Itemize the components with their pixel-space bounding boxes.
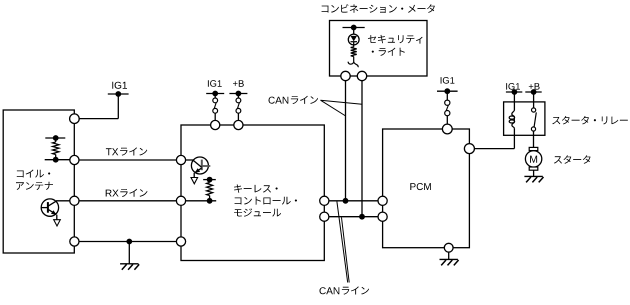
pin PCM CAN lower <box>378 212 387 221</box>
node IG1 (left) tap bar <box>108 93 129 95</box>
ground G3 (starter) <box>533 170 535 176</box>
label keyless line2 コントロール・ <box>235 197 297 205</box>
transistor Q2 emitter <box>195 168 202 173</box>
label CANライン (bottom) <box>320 287 340 294</box>
resistor R1 top tap bar <box>203 179 216 181</box>
wire transistor Q1 collector to RX pin <box>56 200 74 202</box>
label RXライン <box>106 190 119 197</box>
node +B (relay) dot <box>531 89 537 95</box>
label IG1 (relay) <box>506 83 520 90</box>
pin meter CAN2 <box>357 71 366 80</box>
antenna coil bottom dot <box>53 157 59 163</box>
transistor Q1 base lead <box>41 207 48 209</box>
label セキュリティ <box>368 35 423 44</box>
transistor Q2 collector <box>193 160 202 167</box>
wire +B to fuse <box>237 94 239 99</box>
relay coil K1 <box>512 110 515 117</box>
pin keyless RX <box>176 196 185 205</box>
label PCM <box>410 183 431 190</box>
node +B (keyless) tap bar <box>229 93 247 95</box>
transistor Q1 collector <box>48 201 57 207</box>
transistor Q2 emitter arrow <box>195 168 201 173</box>
starter motor M1 top brush <box>529 147 538 150</box>
node +B (keyless) dot <box>236 91 242 97</box>
transistor Q2 circle <box>191 157 208 174</box>
pointer line to CAN line 2 <box>321 100 363 104</box>
node IG1 (relay) tap bar <box>506 91 522 93</box>
label keyless line3 モジュール <box>234 208 281 216</box>
LED D1 security light <box>348 34 359 45</box>
resistor R1 bottom dot <box>207 198 213 204</box>
pin keyless TX <box>176 155 185 164</box>
box PCM <box>383 129 470 248</box>
wire PCM ground pin <box>444 243 453 252</box>
pointer line to CAN line 1 <box>321 100 346 116</box>
node IG1 (relay) dot <box>512 89 518 95</box>
resistor R1 top dot <box>207 177 213 183</box>
label IG1 (keyless) <box>208 80 222 87</box>
resistor L1 antenna coil <box>55 138 57 142</box>
transistor Q2 base lead <box>202 165 211 167</box>
wire ground line (bottom) <box>74 241 181 243</box>
transistor Q1 base bar <box>47 202 49 213</box>
wire switch to starter <box>533 131 535 147</box>
label ・ライト <box>372 48 405 56</box>
wire +B into relay <box>533 92 535 108</box>
label coil-antenna line1 コイル・ <box>17 170 50 178</box>
wire IG1 to fuse <box>446 91 448 100</box>
label coil-antenna line2 アンテナ <box>16 182 53 190</box>
starter motor M1 letter <box>530 156 537 163</box>
node meter power tap bar <box>343 27 365 29</box>
label keyless line1 キーレス・ <box>234 184 278 192</box>
label コンビネーション・メータ <box>322 4 435 13</box>
wire fuse to pin <box>237 113 239 125</box>
pin PCM CAN upper <box>378 196 387 205</box>
fuse F1 (IG1 keyless) <box>213 98 218 103</box>
node IG1 (keyless) tap bar <box>206 93 224 95</box>
pin coil-antenna 3 (RX) <box>70 196 79 205</box>
box coil-antenna <box>3 110 74 253</box>
pin PCM IG1 <box>442 124 452 134</box>
wire CAN line 2 (vertical) <box>361 76 363 217</box>
ground G2 (PCM) <box>448 252 450 259</box>
label CANライン (top) <box>269 97 289 104</box>
resistor R1 (keyless) <box>209 180 211 183</box>
transistor Q1 emitter <box>48 209 56 214</box>
wire TX line <box>74 159 181 161</box>
pointer line from upper bus <box>337 202 348 283</box>
label IG1 (left) <box>112 82 127 89</box>
wire tap to LED <box>353 28 355 35</box>
box combination-meter <box>330 21 428 77</box>
transistor Q1 emitter arrow <box>51 210 57 215</box>
starter motor M1 body <box>525 151 541 167</box>
wire CAN bus upper <box>324 200 382 202</box>
label TXライン <box>106 148 118 155</box>
fuse F3 (IG1 PCM) <box>445 100 450 105</box>
relay switch S1 top contact <box>532 108 536 112</box>
wire fuse to pin <box>214 113 216 125</box>
squiggle internal-connection <box>354 57 358 68</box>
label +B (relay) <box>529 83 540 90</box>
wire RX pin stub <box>181 200 216 202</box>
pointer line from lower bus <box>342 218 350 283</box>
wire CAN bus lower <box>324 216 382 218</box>
node IG1 (PCM) dot <box>444 88 450 94</box>
label +B (keyless) <box>233 80 244 87</box>
wire CAN line 1 (vertical) <box>345 76 347 201</box>
junction dot CAN1/bus <box>343 198 349 204</box>
pin PCM starter-control <box>464 144 474 154</box>
node IG1 (keyless) dot <box>212 91 218 97</box>
starter motor M1 bottom brush <box>529 167 538 170</box>
node +B (relay) tap bar <box>525 91 541 93</box>
pin coil-antenna 4 (GND) <box>70 237 79 246</box>
junction dot CAN2/bus <box>359 214 365 220</box>
pin keyless CAN upper <box>320 196 329 205</box>
pin coil-antenna 1 <box>70 114 80 124</box>
wire PCM to starter relay coil <box>469 148 514 150</box>
pin coil-antenna 2 (TX) <box>70 155 79 164</box>
transistor Q2 emitter tail <box>193 173 195 178</box>
antenna coil top tap bar <box>45 137 65 139</box>
ground G1 <box>128 242 130 264</box>
junction dot on ground line <box>126 239 132 245</box>
wire IG1 feed to coil-antenna box <box>117 94 119 119</box>
pin meter CAN1 <box>341 71 350 80</box>
wire IG1 to fuse <box>214 94 216 99</box>
pin keyless GND <box>176 237 185 246</box>
relay switch S1 blade <box>534 112 536 127</box>
relay switch S1 bottom contact <box>531 127 535 131</box>
node IG1 (left) junction dot <box>115 91 121 97</box>
node IG1 (PCM) tap bar <box>437 90 458 92</box>
label スタータ・リレー <box>552 116 628 125</box>
box starter-relay <box>504 102 545 135</box>
wire IG1 into relay <box>513 92 515 110</box>
node meter power dot <box>351 25 357 31</box>
open arrow below Q2 <box>191 178 198 184</box>
transistor Q1 emitter tail <box>56 215 58 220</box>
open arrow below Q1 <box>54 220 61 226</box>
fuse F2 (+B keyless) <box>236 98 241 103</box>
transistor Q2 base bar <box>201 160 203 171</box>
label スタータ <box>554 155 591 164</box>
wire fuse to PCM pin <box>446 116 448 129</box>
label IG1 (PCM) <box>441 77 455 84</box>
resistor R2 (meter) <box>353 42 355 47</box>
wire RX line <box>74 200 181 202</box>
pin keyless IG1 <box>211 120 220 129</box>
wire TX pin to transistor Q2 <box>181 159 194 161</box>
box keyless-control-module <box>181 125 324 261</box>
pin keyless +B <box>234 120 243 129</box>
antenna coil bottom tap bar / wire to pin <box>45 159 75 161</box>
pin keyless CAN lower <box>320 212 329 221</box>
transistor Q1 circle <box>41 199 58 216</box>
antenna coil top dot <box>53 135 59 141</box>
